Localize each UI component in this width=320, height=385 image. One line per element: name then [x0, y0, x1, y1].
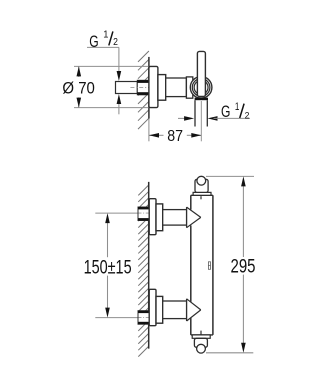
- 150 dim upper extension / axis: [95, 212, 138, 214]
- upper escutcheon cylinder: [156, 204, 163, 231]
- svg-text:87: 87: [167, 128, 183, 145]
- wall extension line for 87 dim: [148, 119, 150, 142]
- svg-text:1: 1: [235, 101, 240, 113]
- valve rings: [190, 77, 212, 99]
- top ball: [197, 176, 206, 185]
- pipe stub into wall: [116, 82, 138, 94]
- tube left edge segments: [190, 195, 192, 209]
- 150 dim lower extension / axis: [95, 317, 138, 319]
- upper axis centre line in nut: [139, 212, 150, 214]
- wall hatching (front view): [138, 185, 148, 357]
- shower outlet pipe: [194, 100, 196, 126]
- svg-text:150±15: 150±15: [84, 257, 132, 278]
- svg-text:295: 295: [231, 257, 256, 278]
- svg-text:G: G: [221, 103, 230, 121]
- bottom collar: [192, 335, 210, 338]
- 295 dimension line + arrows: [242, 186, 244, 257]
- lever handle: [197, 51, 205, 96]
- upper junction cone: [187, 207, 201, 228]
- escutcheon (top view): [149, 66, 158, 107]
- bottom ball: [197, 344, 206, 353]
- lower axis centre line in nut: [139, 317, 150, 319]
- top collar: [193, 192, 211, 195]
- G 1/2 lower counter-arrow: [118, 104, 120, 115]
- svg-text:G: G: [89, 33, 98, 51]
- escutcheon cylinder (top view): [158, 75, 166, 101]
- lower union nut: [138, 311, 149, 325]
- lower junction cone: [187, 299, 201, 321]
- 295 extension lines: [206, 175, 254, 177]
- valve body step: [186, 77, 192, 98]
- axis centre line through nut: [130, 87, 149, 89]
- upper union nut: [138, 207, 149, 221]
- horizontal pipe to valve: [166, 78, 187, 97]
- bottom cap: [194, 338, 207, 347]
- G 1/2 top-left leader: [87, 46, 119, 48]
- dia 70 dimension line + arrows: [78, 66, 80, 77]
- top tick: [200, 196, 202, 199]
- wall face line (front view): [148, 182, 150, 349]
- union nut (top view): [137, 80, 149, 95]
- tube right edge: [212, 195, 214, 335]
- wall hatching (top view): [138, 51, 149, 129]
- top cap: [195, 179, 208, 192]
- tube top edge: [191, 194, 213, 196]
- valve bottom nut (black band): [195, 98, 208, 101]
- 87 dimension: [149, 134, 164, 136]
- lower escutcheon: [149, 289, 156, 325]
- 150 dimension line + arrows: [107, 223, 109, 257]
- upper connection pipe: [163, 210, 187, 226]
- lower connection pipe: [163, 301, 187, 319]
- wall face line (top view): [148, 57, 150, 119]
- mixer body tube fill: [191, 195, 213, 335]
- lower escutcheon cylinder: [156, 296, 163, 323]
- svg-text:1: 1: [103, 29, 108, 41]
- bottom tick: [200, 331, 202, 335]
- svg-text:2: 2: [245, 110, 250, 120]
- tube bottom edge: [191, 334, 213, 336]
- small logo mark on tube: [208, 262, 210, 270]
- svg-text:2: 2: [113, 37, 118, 48]
- upper escutcheon: [149, 199, 156, 235]
- dia 70 extension lines: [74, 65, 149, 67]
- svg-text:Ø 70: Ø 70: [62, 79, 95, 97]
- outlet centre line / 87 extension: [200, 101, 202, 141]
- G 1/2 right label leader + arrows: [178, 117, 188, 119]
